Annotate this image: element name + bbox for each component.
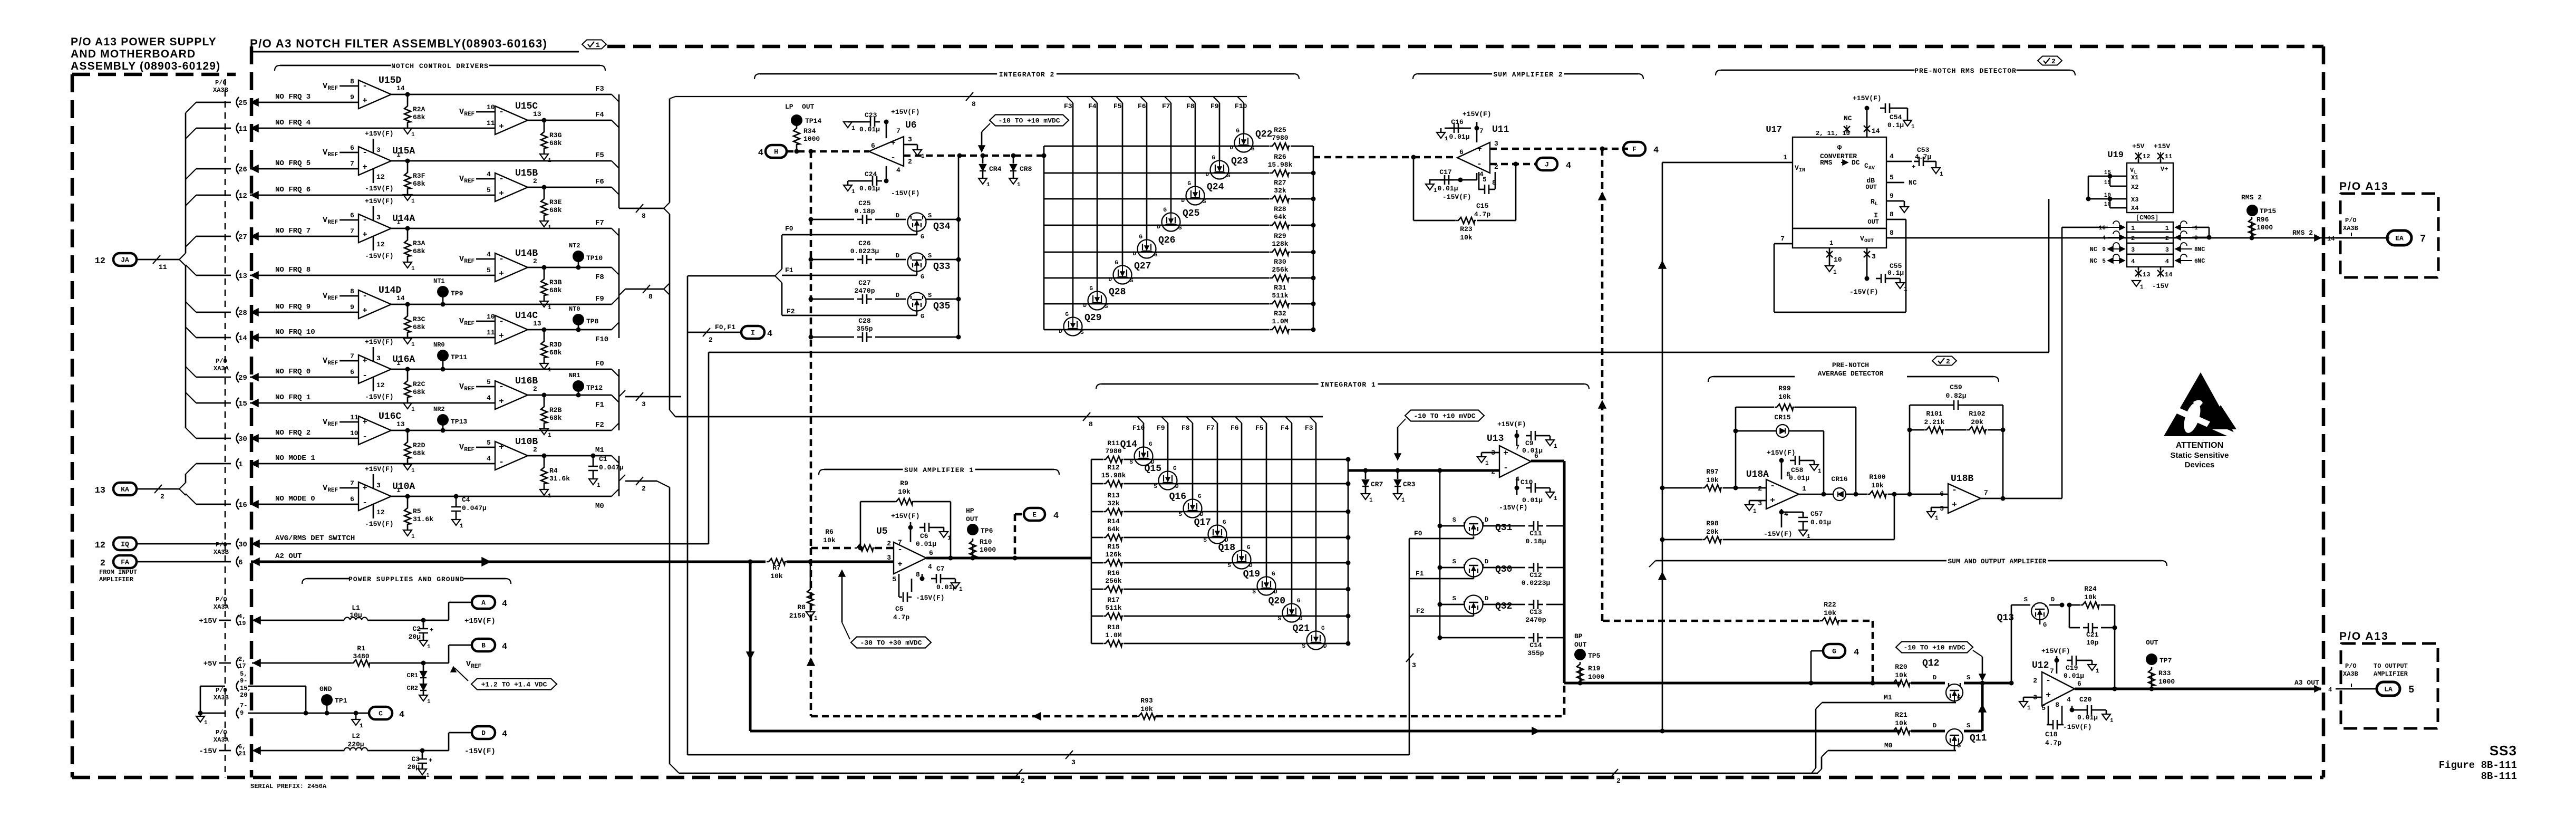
U10B output pin 2 wire to M1	[528, 455, 612, 457]
svg-text:S: S	[1967, 674, 1970, 681]
heavy wire ladder to U13	[1348, 469, 1499, 472]
svg-text:V: V	[323, 82, 327, 91]
op-amp U14A	[359, 214, 391, 243]
U15A +15V/-15V power stubs	[373, 139, 374, 153]
svg-text:355p: 355p	[856, 325, 873, 333]
svg-text:4.7p: 4.7p	[2045, 739, 2061, 747]
svg-text:0.01µ: 0.01µ	[2064, 672, 2084, 680]
U16B output pin 2 wire to F1	[528, 395, 612, 396]
svg-text:S: S	[1227, 563, 1231, 569]
column wire F5 to FET gate	[1116, 97, 1122, 103]
svg-text:2: 2	[2165, 235, 2169, 242]
svg-text:C24: C24	[865, 170, 877, 178]
resistor R3E 68k	[544, 187, 545, 197]
svg-text:NO FRQ 10: NO FRQ 10	[275, 328, 315, 337]
analog switch U19 upper box	[2127, 163, 2173, 213]
FET Q28	[1088, 292, 1107, 310]
svg-text:NOTCH CONTROL DRIVERS: NOTCH CONTROL DRIVERS	[391, 62, 489, 70]
bottom dashed border	[72, 776, 2323, 780]
svg-text:R3B: R3B	[549, 278, 562, 286]
svg-text:NO FRQ 5: NO FRQ 5	[275, 159, 311, 168]
svg-text:4: 4	[2102, 235, 2106, 242]
svg-text:S: S	[928, 212, 932, 219]
svg-text:0.18p: 0.18p	[854, 207, 875, 215]
svg-text:3: 3	[2194, 235, 2198, 242]
svg-text:M1: M1	[595, 446, 604, 455]
svg-text:NC: NC	[2197, 257, 2205, 265]
svg-text:D: D	[1108, 277, 1112, 283]
svg-text:10k: 10k	[823, 536, 836, 544]
resistor R20 10k on summing line	[1891, 680, 1911, 686]
U19 lower switch box	[2127, 222, 2173, 267]
svg-text:NT1: NT1	[433, 277, 445, 285]
svg-text:REF: REF	[464, 111, 474, 118]
svg-text:3: 3	[908, 136, 912, 143]
FET Q16	[1184, 499, 1202, 518]
svg-text:NO FRQ 1: NO FRQ 1	[275, 393, 311, 402]
svg-text:P/O A13 POWER SUPPLY: P/O A13 POWER SUPPLY	[71, 36, 217, 48]
svg-text:Q14: Q14	[1120, 439, 1138, 450]
column wire F5 integrator 1	[1260, 417, 1266, 423]
svg-text:+: +	[1952, 500, 1957, 510]
svg-text:NC: NC	[2197, 246, 2205, 253]
svg-text:Q35: Q35	[933, 301, 950, 312]
svg-text:20µ: 20µ	[409, 633, 421, 641]
column wire F9 integrator 1	[1161, 417, 1168, 423]
svg-text:D: D	[1485, 516, 1488, 524]
resistor R100 10k	[1856, 494, 1867, 495]
svg-text:1000: 1000	[1588, 673, 1604, 681]
svg-text:-15V(F): -15V(F)	[2063, 723, 2092, 731]
svg-text:+15V(F): +15V(F)	[464, 617, 496, 626]
svg-text:5: 5	[1940, 505, 1944, 513]
svg-text:S: S	[928, 252, 932, 259]
svg-text:C: C	[379, 710, 383, 718]
U17 pin 8 I OUT loop	[1886, 219, 1906, 220]
svg-text:Q31: Q31	[1495, 523, 1513, 533]
inductor L1 10u	[344, 618, 367, 621]
svg-text:+15V(F): +15V(F)	[1767, 449, 1796, 457]
ladder resistor R32 1.0M row	[1044, 329, 1270, 331]
svg-text:68k: 68k	[549, 286, 562, 294]
svg-text:C3: C3	[411, 755, 420, 763]
svg-text:S: S	[1252, 589, 1256, 595]
capacitor C26 0.0223µ	[809, 257, 814, 262]
svg-text:1: 1	[1554, 444, 1557, 450]
svg-text:4: 4	[502, 642, 507, 652]
feedback resistor R23 10k	[1515, 164, 1517, 220]
dashed wire ladder to U11	[1042, 153, 1047, 158]
svg-text:R30: R30	[1274, 258, 1286, 266]
wire to U17 VIN	[1662, 162, 1663, 733]
op-amp U16A	[359, 355, 391, 383]
svg-text:4: 4	[758, 148, 763, 158]
svg-text:2: 2	[709, 336, 713, 344]
svg-text:I: I	[751, 329, 755, 337]
ladder resistor R26 15.98k row	[1044, 172, 1270, 174]
svg-text:AVERAGE DETECTOR: AVERAGE DETECTOR	[1818, 370, 1884, 378]
ground below R3C	[407, 334, 409, 338]
svg-text:R3D: R3D	[549, 341, 562, 349]
svg-text:REF: REF	[327, 85, 338, 92]
border crossing pin 4	[2314, 686, 2321, 692]
U18B output feed to U19 pin 16	[2061, 227, 2063, 498]
op-amp U14D	[359, 290, 391, 319]
svg-text:C18: C18	[2045, 731, 2058, 738]
svg-text:D: D	[1083, 303, 1087, 309]
svg-text:4.7p: 4.7p	[1474, 210, 1490, 218]
svg-text:1: 1	[1904, 286, 1907, 293]
FET Q23	[1210, 161, 1229, 179]
svg-text:-: -	[362, 498, 367, 507]
svg-text:+: +	[362, 483, 367, 493]
svg-text:8: 8	[350, 78, 354, 85]
svg-text:NR1: NR1	[569, 372, 580, 379]
svg-text:OUT: OUT	[966, 515, 979, 523]
svg-text:16: 16	[238, 501, 247, 510]
svg-text:NR0: NR0	[433, 341, 445, 349]
svg-text:1000: 1000	[980, 546, 996, 554]
svg-text:Q12: Q12	[1922, 658, 1939, 669]
op-amp U18A	[1766, 479, 1799, 509]
svg-text:F10: F10	[1132, 424, 1145, 432]
svg-text:TP11: TP11	[451, 353, 467, 361]
svg-text:2150: 2150	[789, 612, 806, 620]
ladder resistor R28 64k row	[1044, 225, 1270, 226]
U17 pin 5 dB OUT NC	[1886, 182, 1904, 184]
svg-text:F10: F10	[595, 335, 608, 344]
svg-text:D: D	[896, 212, 899, 219]
svg-text:4: 4	[502, 599, 507, 609]
right collector vertical integrator 2 caps	[958, 156, 960, 337]
svg-text:7: 7	[350, 479, 354, 487]
svg-text:+15V(F): +15V(F)	[891, 512, 920, 520]
svg-text:G: G	[1089, 286, 1093, 292]
svg-text:-: -	[2046, 676, 2051, 685]
svg-text:S: S	[1080, 330, 1084, 336]
FET Q27	[1113, 266, 1132, 284]
diode CR16	[1824, 494, 1833, 495]
svg-text:XA3A: XA3A	[214, 365, 229, 372]
section header INTEGRATOR 2	[760, 73, 997, 75]
svg-text:12: 12	[2143, 153, 2150, 160]
svg-text:JA: JA	[121, 256, 129, 264]
svg-text:25: 25	[238, 99, 247, 108]
op-amp U10A	[359, 482, 391, 511]
svg-text:-: -	[499, 382, 504, 391]
svg-text:M1: M1	[1884, 694, 1892, 701]
svg-text:6: 6	[871, 142, 875, 150]
svg-text:14: 14	[2165, 271, 2172, 278]
svg-text:V: V	[459, 443, 464, 452]
svg-text:F2: F2	[1416, 607, 1425, 615]
3-bus feed to integrator 2 F0 F1 F2	[687, 275, 775, 277]
svg-text:+: +	[362, 230, 367, 239]
svg-text:A: A	[481, 599, 486, 607]
svg-text:INTEGRATOR 2: INTEGRATOR 2	[999, 71, 1055, 79]
svg-text:Q32: Q32	[1495, 601, 1512, 612]
resistor R21 10k mode row	[1891, 728, 1911, 734]
FET Q17	[1208, 525, 1227, 544]
ladder resistor R11 7980 row	[1091, 459, 1103, 460]
svg-text:9-: 9-	[240, 677, 247, 685]
dashed feedback from F via R22 10k	[1603, 620, 1819, 622]
svg-text:10: 10	[487, 313, 495, 321]
svg-text:-15V(F): -15V(F)	[365, 185, 394, 193]
feedback resistor R9 10k	[860, 502, 861, 548]
svg-text:-15V(F): -15V(F)	[365, 393, 394, 401]
diode CR3	[1397, 470, 1399, 479]
svg-text:D: D	[1485, 558, 1488, 565]
column wire F6 integrator 1	[1235, 417, 1242, 423]
svg-text:OUT: OUT	[802, 103, 815, 111]
svg-text:U13: U13	[1487, 434, 1504, 444]
U17 pin 4 CAV with C53	[1886, 161, 1912, 162]
svg-text:Q22: Q22	[1255, 129, 1272, 140]
op-amp U11 (faces left)	[1457, 142, 1490, 173]
svg-text:P/O A13: P/O A13	[2339, 630, 2389, 642]
resistor R34 1000	[796, 120, 798, 127]
cap C12 0.0223µ	[1438, 565, 1442, 570]
svg-text:1: 1	[396, 359, 401, 367]
ladder resistor R30 256k row	[1044, 277, 1270, 279]
svg-text:7: 7	[350, 352, 354, 360]
svg-text:R12: R12	[1107, 464, 1120, 472]
svg-text:B: B	[481, 642, 486, 650]
svg-text:5: 5	[2102, 258, 2106, 265]
svg-text:R2B: R2B	[549, 406, 562, 414]
svg-text:TP10: TP10	[586, 254, 603, 262]
svg-text:13: 13	[95, 486, 105, 496]
svg-text:+15V(F): +15V(F)	[365, 465, 394, 473]
svg-text:C27: C27	[858, 279, 870, 287]
svg-text:F9: F9	[1210, 102, 1219, 110]
input resistor R97 10k	[1660, 486, 1665, 491]
svg-text:REF: REF	[327, 219, 338, 226]
svg-text:Figure 8B-111: Figure 8B-111	[2439, 760, 2517, 771]
svg-text:S: S	[1227, 173, 1231, 179]
svg-text:M0: M0	[1884, 742, 1893, 749]
svg-text:R33: R33	[2158, 669, 2171, 677]
svg-text:R17: R17	[1107, 596, 1119, 604]
svg-text:16: 16	[2099, 225, 2106, 232]
svg-text:F5: F5	[1113, 102, 1122, 110]
svg-text:F1: F1	[595, 401, 604, 409]
svg-text:20k: 20k	[1971, 418, 1983, 426]
capacitor C2 20u	[423, 620, 424, 626]
input resistor R98 20k	[1660, 537, 1665, 542]
svg-text:126k: 126k	[1105, 551, 1121, 559]
svg-text:+15V(F): +15V(F)	[365, 130, 394, 138]
svg-text:6,: 6,	[238, 743, 246, 751]
ground below R3A	[407, 258, 409, 262]
svg-text:1000: 1000	[803, 135, 820, 143]
svg-text:X3: X3	[2131, 196, 2138, 204]
F0-F2 bus vertical	[618, 369, 620, 430]
svg-text:SS3: SS3	[2490, 743, 2517, 758]
svg-text:15.98k: 15.98k	[1101, 472, 1126, 479]
svg-text:4: 4	[1053, 511, 1059, 521]
svg-text:V: V	[459, 382, 464, 391]
svg-text:R27: R27	[1274, 179, 1286, 187]
svg-text:10p: 10p	[2086, 639, 2099, 647]
svg-text:TP12: TP12	[586, 384, 603, 392]
svg-text:F0: F0	[785, 225, 793, 233]
resistor R3D 68k	[544, 330, 545, 339]
svg-text:6: 6	[350, 212, 354, 219]
connector J to sheet 4	[1536, 158, 1557, 170]
resistor R3F 68k	[407, 161, 409, 170]
svg-text:7: 7	[1479, 127, 1484, 135]
svg-text:+: +	[499, 443, 504, 452]
svg-text:1: 1	[411, 266, 415, 272]
column wire F10 to FET gate	[1237, 97, 1244, 103]
dashed LP signal wire H to U6 output	[787, 150, 869, 153]
svg-text:13: 13	[533, 320, 541, 328]
svg-text:G: G	[1139, 234, 1142, 241]
svg-text:P/O: P/O	[216, 687, 227, 694]
svg-text:511k: 511k	[1272, 292, 1288, 300]
+1.2 TO +1.4 VDC voltage flag	[471, 679, 557, 690]
svg-text:10µ: 10µ	[350, 611, 362, 619]
svg-text:+15V: +15V	[2154, 142, 2170, 150]
svg-text:11: 11	[159, 263, 167, 271]
svg-text:C4: C4	[462, 496, 470, 504]
svg-text:0.01µ: 0.01µ	[1437, 185, 1458, 193]
svg-text:13: 13	[396, 420, 405, 428]
svg-text:1: 1	[1485, 460, 1489, 467]
capacitor C3 20u	[422, 751, 423, 756]
svg-text:14: 14	[396, 84, 405, 92]
svg-text:R93: R93	[1140, 697, 1153, 705]
svg-text:[CMOS]: [CMOS]	[2136, 214, 2158, 222]
svg-text:+15V(F): +15V(F)	[1853, 94, 1882, 102]
svg-text:ASSEMBLY (08903-60129): ASSEMBLY (08903-60129)	[71, 60, 220, 72]
svg-text:+: +	[1770, 496, 1775, 505]
wire NO FRQ 1 from connector pin 15	[237, 398, 239, 408]
svg-text:G: G	[1187, 181, 1191, 187]
svg-text:5: 5	[487, 378, 491, 386]
ladder resistor R25 7980 row	[1044, 146, 1270, 147]
svg-text:10k: 10k	[1460, 234, 1473, 242]
U19 left pin arrows	[2119, 225, 2125, 230]
svg-text:D: D	[1181, 198, 1185, 204]
op-amp U15C	[495, 106, 528, 134]
svg-text:2, 11, 13: 2, 11, 13	[1816, 130, 1850, 137]
svg-text:2: 2	[160, 493, 164, 501]
svg-text:R3F: R3F	[413, 172, 425, 180]
svg-text:+: +	[890, 138, 896, 148]
svg-text:1: 1	[204, 720, 208, 726]
U12 output heavy wire A3 OUT	[2075, 688, 2321, 690]
dashed vertical F signal down to sum output amp	[1601, 149, 1604, 621]
test point TP11 node NR0	[441, 367, 446, 372]
svg-text:1: 1	[548, 305, 551, 311]
svg-text:1: 1	[921, 153, 925, 160]
svg-text:5: 5	[487, 186, 491, 194]
svg-text:4: 4	[399, 710, 404, 720]
svg-text:4: 4	[1784, 510, 1788, 518]
svg-text:C5: C5	[895, 605, 904, 613]
svg-text:10: 10	[350, 429, 359, 437]
svg-text:6: 6	[929, 549, 933, 557]
svg-text:64k: 64k	[1274, 213, 1286, 221]
svg-text:2: 2	[1491, 468, 1495, 476]
svg-text:Q17: Q17	[1194, 517, 1211, 528]
svg-text:1: 1	[1802, 485, 1806, 493]
ground below R3E	[544, 217, 545, 221]
F0,F1 branch to I connector	[687, 332, 741, 333]
svg-text:9: 9	[350, 93, 354, 101]
svg-text:2: 2	[100, 559, 105, 569]
svg-text:6: 6	[350, 144, 354, 152]
ladder resistor R14 64k row	[1091, 537, 1103, 539]
svg-text:Static Sensitive: Static Sensitive	[2171, 451, 2229, 460]
svg-text:+: +	[362, 306, 367, 315]
FET Q26	[1138, 240, 1156, 258]
resistor R5 31.6k	[407, 496, 409, 506]
svg-text:Q11: Q11	[1970, 733, 1987, 744]
svg-text:G: G	[1163, 207, 1167, 214]
svg-text:10k: 10k	[1778, 393, 1791, 401]
op-amp U15A	[359, 147, 391, 175]
FET Q30	[1440, 567, 1464, 569]
svg-text:R22: R22	[1824, 601, 1836, 609]
svg-text:1: 1	[2096, 668, 2099, 675]
svg-text:R2A: R2A	[413, 105, 425, 113]
svg-text:NO MODE 0: NO MODE 0	[275, 495, 315, 503]
svg-text:R3A: R3A	[413, 239, 425, 247]
gate wires F0 F1 F2 to Q34 Q33 Q35	[811, 234, 917, 236]
FET Q18	[1233, 551, 1251, 569]
A3 left heavy dashed border	[250, 46, 254, 777]
svg-text:RMS 2: RMS 2	[2241, 194, 2262, 201]
svg-text:S: S	[1251, 146, 1255, 152]
svg-text:+: +	[362, 96, 367, 105]
svg-text:1: 1	[1818, 468, 1822, 475]
-10 TO +10 mVDC flag output amp	[1896, 642, 1973, 653]
svg-text:2: 2	[2131, 235, 2135, 242]
column wire F4 to FET gate	[1091, 97, 1097, 103]
svg-text:TP6: TP6	[981, 527, 993, 535]
svg-text:1: 1	[959, 587, 963, 593]
svg-text:RMS: RMS	[1820, 159, 1833, 167]
svg-text:32k: 32k	[1107, 499, 1120, 507]
svg-text:12: 12	[95, 256, 105, 266]
svg-text:1: 1	[851, 189, 855, 195]
svg-text:6: 6	[1459, 148, 1464, 156]
svg-text:0.01µ: 0.01µ	[2077, 714, 2098, 722]
cap C13 2470p	[1438, 602, 1442, 607]
svg-text:R1: R1	[357, 645, 365, 652]
svg-text:10k: 10k	[2084, 593, 2097, 601]
svg-text:INTEGRATOR 1: INTEGRATOR 1	[1320, 381, 1376, 389]
svg-text:+5V: +5V	[2132, 142, 2145, 150]
svg-text:14: 14	[2327, 235, 2335, 243]
svg-text:1: 1	[1829, 239, 1833, 247]
ground below R5	[407, 526, 409, 530]
svg-text:-: -	[499, 254, 504, 264]
svg-text:F4: F4	[1281, 424, 1289, 432]
svg-text:1: 1	[1783, 153, 1787, 161]
heavy A2 branch down-left	[749, 562, 752, 731]
svg-text:8: 8	[1890, 229, 1894, 237]
A2 OUT heavy signal wire	[251, 561, 766, 563]
svg-text:R2D: R2D	[413, 441, 425, 449]
svg-text:1: 1	[597, 483, 601, 489]
svg-text:X4: X4	[2131, 205, 2138, 212]
svg-text:P/O A13: P/O A13	[2339, 180, 2389, 193]
